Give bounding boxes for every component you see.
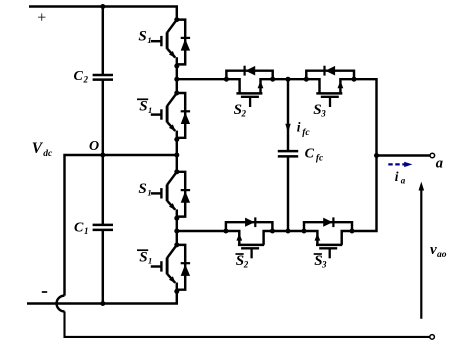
diode of S1bar top triangle (181, 112, 190, 124)
switch S2 bypass diode cathode bar (244, 66, 246, 76)
node a junction on output bus (374, 153, 379, 158)
diode of S1 top cathode bar (181, 37, 190, 39)
IGBT S1bar bottom emitter lead with arrow (167, 274, 175, 283)
switch S2bar gate lead (250, 248, 252, 258)
capacitor Cfc top plate (278, 150, 298, 153)
node leg O junction (174, 153, 179, 158)
capacitor Cfc bottom plate (278, 155, 298, 158)
switch S2bar bypass diode wire (226, 222, 273, 231)
diode of S1 bottom triangle (181, 191, 190, 203)
svg-text:S: S (139, 249, 147, 265)
svg-text:v: v (430, 242, 437, 258)
node top of S1bar bottom (174, 242, 179, 247)
diode of S1bar bottom branch wire (177, 245, 185, 290)
wire flying capacitor branch lower (287, 156, 289, 231)
node top rail / capacitor bus junction (100, 4, 105, 9)
node top of S1bar top (174, 91, 179, 96)
switch S3 channel bar (316, 92, 342, 95)
node left of S2bar (223, 229, 228, 234)
wire crossover hop over negative rail (57, 296, 65, 312)
svg-text:+: + (37, 10, 46, 27)
switch S3bar drain lead (342, 231, 352, 245)
arrow ifc current (285, 124, 290, 133)
node left of S2 (224, 77, 229, 82)
diode of S1 top triangle (181, 39, 190, 51)
node leg upper row junction (174, 77, 179, 82)
IGBT S1 top body bar (166, 33, 169, 49)
switch S2 drain lead (226, 79, 239, 93)
svg-text:1: 1 (84, 226, 89, 236)
diode of S1 bottom branch wire (177, 172, 185, 217)
svg-text:i: i (395, 169, 399, 184)
svg-text:1: 1 (147, 35, 151, 45)
svg-text:C: C (74, 69, 84, 84)
switch S3 bypass diode triangle (325, 66, 335, 76)
svg-text:S: S (139, 98, 147, 114)
svg-text:S: S (138, 28, 146, 44)
node right of S2 (270, 77, 275, 82)
IGBT S1bar bottom gate bar (160, 261, 162, 271)
node flying cap branch top (286, 77, 291, 82)
node negative rail / capacitor bus junction (100, 301, 105, 306)
switch S3 gate bar (321, 96, 339, 98)
switch S2bar drain lead (264, 231, 273, 245)
svg-text:1: 1 (148, 256, 152, 266)
terminal o open circle (430, 335, 435, 340)
capacitor C2 bottom plate (93, 78, 113, 81)
svg-text:C: C (74, 221, 84, 236)
IGBT S1 bottom collector lead (167, 172, 177, 185)
wire lower row middle segment (272, 230, 304, 232)
IGBT S1 bottom gate bar (160, 188, 162, 198)
svg-text:fc: fc (316, 154, 324, 164)
switch S3bar bypass diode wire (304, 222, 352, 231)
svg-text:2: 2 (241, 109, 247, 119)
IGBT S1 bottom gate lead (151, 192, 162, 194)
IGBT S1bar bottom collector lead (167, 245, 177, 258)
svg-text:S: S (138, 181, 146, 197)
capacitor C1 top plate (93, 224, 113, 227)
svg-text:a: a (436, 155, 443, 171)
node left of S3bar (302, 229, 307, 234)
switch S2bar gate bar (241, 247, 259, 249)
svg-text:ao: ao (437, 250, 447, 260)
IGBT S1 top gate bar (160, 36, 162, 46)
switch S2 bypass diode wire (226, 71, 272, 80)
node top of S1 top (174, 17, 179, 22)
svg-text:2: 2 (83, 75, 89, 85)
wire dc-link capacitor bus (102, 7, 104, 76)
wire output bus lower (352, 156, 377, 232)
svg-text:3: 3 (321, 260, 327, 270)
IGBT S1bar top collector lead (167, 93, 177, 106)
capacitor C2 top plate (93, 74, 113, 77)
diode of S1bar top cathode bar (181, 110, 190, 112)
svg-text:1: 1 (148, 105, 152, 115)
wire lower row left segment (177, 230, 226, 232)
wire upper row middle segment (273, 78, 307, 80)
IGBT S1bar top emitter lead with arrow (167, 122, 175, 131)
svg-text:fc: fc (302, 128, 310, 138)
IGBT S1 bottom body bar (166, 185, 169, 201)
svg-text:a: a (401, 175, 406, 185)
IGBT S1bar bottom body bar (166, 258, 169, 274)
wire phase leg vertical segments (176, 66, 178, 93)
IGBT S1 bottom emitter lead with arrow (167, 201, 175, 210)
switch S3 drain lead (306, 79, 319, 93)
arrow vao (420, 189, 422, 319)
node flying cap branch bottom (286, 229, 291, 234)
node right of S3bar (350, 229, 355, 234)
wire left bus lower (crossover to bottom rail) (65, 311, 430, 337)
switch S3 source lead with arrow (340, 79, 354, 93)
wire upper row right segment (354, 79, 377, 155)
IGBT S1bar top body bar (166, 106, 169, 122)
switch S3bar gate lead (329, 248, 331, 258)
svg-text:3: 3 (320, 109, 326, 119)
switch S3bar bypass diode triangle (323, 218, 332, 227)
node right of S3 (352, 77, 357, 82)
switch S2bar bypass diode triangle (245, 218, 254, 227)
switch S3bar gate bar (319, 247, 337, 249)
IGBT S1bar bottom gate lead (151, 265, 162, 267)
terminal a open circle (430, 153, 435, 158)
svg-text:dc: dc (43, 149, 53, 159)
arrow ia dashed (388, 163, 405, 165)
node bottom of S1 bottom (174, 216, 179, 221)
switch S2bar channel bar (238, 244, 264, 247)
svg-text:1: 1 (147, 188, 151, 198)
switch S2 source lead with arrow (261, 79, 273, 93)
switch S2bar bypass diode cathode bar (254, 217, 256, 227)
switch S3bar source lead with arrow (304, 231, 317, 245)
switch S3 bypass diode cathode bar (323, 66, 325, 76)
node bottom of S1bar bottom (174, 289, 179, 294)
IGBT S1 top gate lead (151, 40, 162, 42)
switch S2 gate lead (249, 97, 251, 107)
switch S3 gate lead (329, 97, 331, 107)
switch S3bar channel bar (316, 244, 342, 247)
wire upper row left segment (177, 78, 227, 80)
switch S2 channel bar (236, 92, 262, 95)
switch S2 bypass diode triangle (245, 66, 255, 76)
svg-text:2: 2 (243, 260, 249, 270)
node left of S3 (304, 77, 309, 82)
wire flying capacitor branch upper (287, 79, 289, 151)
diode of S1 top branch wire (177, 20, 185, 65)
IGBT S1bar top gate bar (160, 109, 162, 119)
svg-text:i: i (297, 120, 301, 135)
IGBT S1bar top gate lead (151, 113, 162, 115)
wire neutral O horizontal (65, 155, 177, 296)
wire positive dc rail (29, 7, 177, 20)
IGBT S1 top emitter lead with arrow (167, 49, 175, 58)
svg-text:O: O (89, 139, 99, 154)
wire to terminal a (377, 154, 431, 156)
node leg lower row junction (174, 229, 179, 234)
diode of S1bar bottom triangle (181, 264, 190, 276)
diode of S1bar bottom cathode bar (181, 262, 190, 264)
switch S3 bypass diode wire (306, 71, 354, 80)
diode of S1 bottom cathode bar (181, 189, 190, 191)
node bottom of S1bar top (174, 137, 179, 142)
switch S3bar bypass diode cathode bar (332, 217, 334, 227)
capacitor C1 bottom plate (93, 229, 113, 232)
switch S2bar source lead with arrow (226, 231, 239, 245)
node O junction on capacitor bus (100, 153, 105, 158)
diode of S1bar top branch wire (177, 93, 185, 138)
IGBT S1 top collector lead (167, 20, 177, 33)
wire negative dc rail (27, 291, 177, 303)
node bottom of S1 top (174, 64, 179, 69)
svg-text:C: C (305, 147, 315, 162)
svg-text:V: V (32, 140, 44, 157)
node top of S1 bottom (174, 169, 179, 174)
label minus terminal (42, 291, 47, 293)
switch S2 gate bar (241, 96, 259, 98)
node right of S2bar (270, 229, 275, 234)
